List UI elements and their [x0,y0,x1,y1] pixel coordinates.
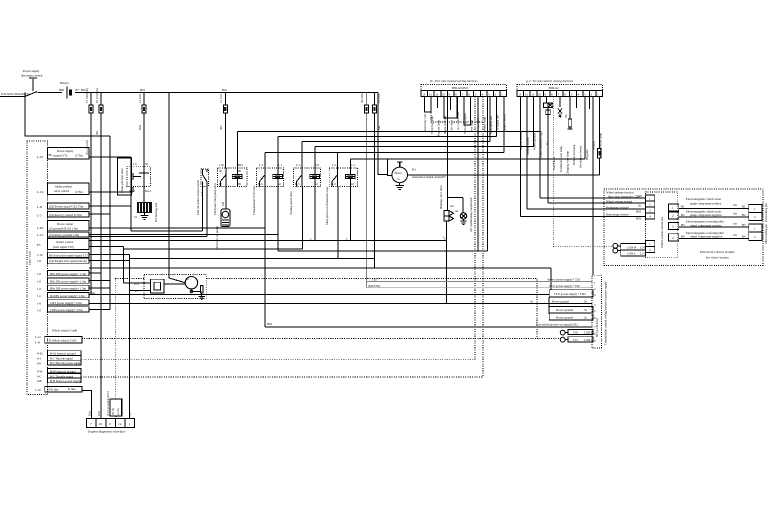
trans row2 tcu power label [368,284,580,288]
wheel CAN twisted pair symbol [553,243,617,253]
X1 pin digits [422,92,503,96]
svg-text:B1: B1 [742,204,746,208]
air conditioning compressor [455,198,473,233]
svg-text:1-0: 1-0 [37,301,41,305]
svg-text:L17: L17 [640,252,645,256]
wire ecu row5 ground to relay K3 [89,227,265,229]
ECU DIS row11 box [37,278,89,284]
X2 pin1 wire to wheel row4 [519,97,521,217]
svg-text:(start signal T50): (start signal T50) [53,245,74,249]
svg-text:30a: 30a [219,125,223,130]
wire ecu row9 [89,259,130,261]
svg-text:disconnect switch: disconnect switch [21,74,43,78]
svg-text:Power output: Power output [57,222,73,226]
svg-text:Da DIS power supply+ 2.5m: Da DIS power supply+ 2.5m [50,294,85,298]
wire throttle signal dashed long [81,359,475,361]
X1 pin3 wire [437,97,439,109]
svg-text:B0-gnd2: B0-gnd2 [585,149,589,160]
fuse F2 [95,88,103,418]
ECU DIS row10 box [37,270,89,276]
wheel bottom pin boxes [646,240,655,252]
diag K line wire [82,390,92,418]
X2 pin7 lamp symbol [558,97,562,118]
svg-text:Air conditioning compressor: Air conditioning compressor [469,198,473,233]
X1 pin9 wire throttle dashed [474,97,476,360]
fuse F3 preheat [138,93,146,168]
svg-text:13: 13 [518,92,522,96]
svg-text:Whole vehicle CanB: Whole vehicle CanB [52,329,77,333]
svg-text:L-C2: L-C2 [37,190,44,194]
svg-text:a) 5A: a) 5A [116,407,120,415]
svg-text:Transmission TCU relay: Transmission TCU relay [252,185,256,215]
svg-text:a2: a2 [278,182,281,186]
fan locking connector B [749,224,768,244]
svg-text:Wheel system control box: Wheel system control box [660,216,664,248]
svg-text:1-0: 1-0 [37,280,41,284]
holding valve Y1 [439,97,463,304]
svg-text:B0a DIS power supply+ 1.5m: B0a DIS power supply+ 1.5m [50,287,87,291]
ECU DIS row14 box [37,300,89,306]
svg-text:B00: B00 [59,88,65,92]
svg-text:(T15 at switch ACC): (T15 at switch ACC) [106,391,110,416]
svg-text:(5)2 Engine start speed plus s: (5)2 Engine start speed plus sig [49,259,87,263]
wire CAN dashed [82,338,561,340]
svg-text:Engine diagnostic interface: Engine diagnostic interface [87,430,126,434]
transmission connector X3 dashed box [592,275,601,348]
svg-text:2-0: 2-0 [315,163,319,167]
svg-text:1x 15A: 1x 15A [219,93,223,103]
svg-text:B06-G2: B06-G2 [549,86,559,90]
fuse F1 [85,88,93,294]
svg-text:B06-G0 (B2): B06-G0 (B2) [452,86,468,90]
svg-text:L-11: L-11 [35,335,41,339]
svg-text:K line: K line [68,387,76,391]
svg-text:11: 11 [435,92,438,96]
SECTION: strips [238,79,603,377]
svg-text:IC_Eve cab control wiring harn: IC_Eve cab control wiring harness [429,79,478,83]
ECU row8 activation enable box [37,252,89,257]
wire L6 [350,159,585,168]
exhaust brake unit A1 [134,274,206,299]
svg-text:Electrical control module: Electrical control module [699,250,735,254]
trans row3 tcu power box [549,290,593,297]
svg-text:L-K2: L-K2 [37,226,44,230]
svg-text:L-03: L-03 [37,155,43,159]
svg-text:Seat lamp: Seat lamp [469,120,473,132]
X1 pin7 wire [464,97,471,126]
svg-text:Motor: Motor [395,171,403,175]
X2 pin10 wire L6 feed [584,97,586,159]
svg-text:for wheel system: for wheel system [706,256,729,260]
connector strip X1 pin row [421,91,507,97]
trans CAN L box [565,337,593,342]
svg-text:(2) battery grounds 1.5m: (2) battery grounds 1.5m [49,233,79,237]
ECU row23 sensor power box [37,378,81,383]
wheel row1 wire key logic [540,191,645,199]
wire starter relay K4 to brake unit [123,187,302,284]
wire ecu DIS row15 [89,308,110,310]
wheel out wire2 pump negative [679,210,749,218]
svg-text:L-N: L-N [35,341,41,345]
svg-text:Fog out lamp: Fog out lamp [436,119,440,136]
wheel row4 wire defrosting switch [520,213,645,221]
svg-text:Idler locking pin: Idler locking pin [764,224,768,244]
X2 pin5 jumper blocks [544,97,553,115]
X1 pin1 wire [424,97,431,113]
X2 pin8 wire fuse [564,97,573,130]
svg-text:C-a: C-a [259,163,264,167]
SECTION: diag [82,390,135,433]
fan locking connector A [749,203,768,222]
X1 pin10 wire sensor dashed [482,97,484,377]
SECTION: motor valve [388,97,600,304]
svg-text:B0a DIS power supply+ 1.5m: B0a DIS power supply+ 1.5m [50,279,87,283]
svg-text:Holding valve relay: Holding valve relay [439,185,443,209]
svg-text:B-5: B-5 [295,182,300,186]
wire flameout relay K5 to brake unit and diag [130,187,375,419]
svg-text:1: 1 [129,422,131,426]
svg-text:Charging wire lamp: Charging wire lamp [565,151,569,175]
svg-text:B01: B01 [238,163,244,167]
svg-text:0-1: 0-1 [37,357,41,361]
ECU DIS row12 box [37,285,89,291]
svg-text:0-0: 0-0 [37,361,41,365]
svg-text:Power supply: Power supply [57,149,74,153]
trans row5 power ground box [549,307,593,313]
X1 pin labels [423,112,506,136]
svg-text:M1: M1 [221,201,225,206]
electronic oil pump M2 [215,187,230,251]
wire K3 coil to strip1 pin9 area [278,97,488,252]
svg-text:1-C: 1-C [37,294,42,298]
svg-text:B02: B02 [267,322,273,326]
svg-text:B-b: B-b [258,182,263,186]
svg-text:31: 31 [134,215,138,219]
pre-heating unit R-glow [134,186,158,222]
svg-text:B-0: B-0 [331,182,336,186]
svg-text:B03: B03 [636,217,642,221]
starting speed relay K4 [289,163,321,215]
trans ground box links [548,297,550,314]
svg-text:L-5: L-5 [37,213,42,217]
svg-text:30: 30 [145,162,149,166]
wire power ground heavy [89,302,592,304]
svg-text:B2 (4-CB-D32): B2 (4-CB-D32) [595,318,599,337]
wire ecu row3 [89,205,131,207]
svg-text:13: 13 [422,92,426,96]
wheel left pin boxes [646,195,655,219]
X2 pin3 wire L4 feed [533,97,535,147]
svg-text:output (VT): output (VT) [53,154,67,158]
ECU row18 sensor ground box [37,351,81,356]
X2 pin4 wire L1 and wheel row1 [539,97,541,198]
svg-text:0.75m: 0.75m [75,190,83,194]
svg-text:30: 30 [219,169,223,173]
svg-text:E3: E3 [37,243,41,247]
svg-text:K2a: K2a [88,410,92,416]
wire strip1 pin feed down to 251 line [487,97,489,252]
svg-text:C22: C22 [637,194,643,198]
svg-text:(2)2 heat rly control 0.75m: (2)2 heat rly control 0.75m [49,213,82,217]
svg-text:relay control: relay control [54,189,69,193]
trans CAN H box [565,329,594,334]
svg-text:L18: L18 [640,245,645,249]
svg-text:Cab valve: Cab valve [450,119,454,132]
wire L1 [238,131,541,168]
svg-text:Electronic oil pump: Electronic oil pump [215,226,219,250]
svg-text:KG2: KG2 [129,189,135,193]
svg-text:12: 12 [525,92,529,96]
SECTION: transmission connector [368,268,608,348]
svg-text:1m: 1m [733,203,738,207]
wire ecu row6 ground to relay K3 coil [89,187,278,252]
wire battery negative loop [25,93,110,310]
svg-text:85: 85 [238,182,242,186]
ECU row20 throttle power box [37,360,82,365]
X2 pin5 wire to wheel row2 [547,108,549,204]
X1 pin13 wire L5 feed [503,97,505,153]
svg-text:Lamp-1 switch: Lamp-1 switch [502,113,506,132]
svg-text:CAN L: CAN L [627,252,636,256]
diag fuse box [110,399,122,419]
svg-text:0-C: 0-C [37,375,42,379]
svg-text:1-1: 1-1 [278,163,282,167]
svg-text:Power ground: Power ground [556,308,573,312]
trans row6 power ground box [549,314,593,320]
wire L4 [315,146,534,167]
wire brake unit feed [168,93,170,275]
svg-text:1m: 1m [733,212,738,216]
svg-text:0.75m: 0.75m [75,154,83,158]
wire ecu DIS row13 Da to TCU supply [89,294,549,296]
wheel row3 wire preheating switch [527,205,646,213]
svg-text:Electronic fuel pump relay: Electronic fuel pump relay [213,182,217,215]
svg-text:CAN H: CAN H [627,245,637,249]
svg-text:Starter control: Starter control [56,240,73,244]
diag pin labels [88,391,132,416]
fuse F6 [373,93,382,268]
svg-text:Key switch (power-on signal) C: Key switch (power-on signal) CR2 [536,323,578,327]
battery B [59,81,87,99]
svg-text:pump component positive: pump component positive [690,202,722,206]
svg-text:KG3: KG3 [145,189,151,193]
wire bus end corner to motor [378,93,387,175]
svg-text:Fuel oil outlet coolant switch: Fuel oil outlet coolant switch [196,180,200,215]
svg-text:E9 K line: E9 K line [47,388,59,392]
trans CAN twisted pair symbol [560,330,565,342]
svg-text:C-a: C-a [296,163,301,167]
engine diagnostic interface connector [87,419,135,434]
X1 pin5 wire holding valve feed [450,97,452,111]
svg-text:Wheel ground: Wheel ground [532,132,536,150]
main power-on flameout relay K5 [325,163,358,225]
X2 pin13 wire to fuse F7 [598,97,600,175]
connector strip X2 pin row [517,91,603,97]
svg-text:A-c switch out: A-c switch out [456,112,460,130]
svg-text:0-B: 0-B [37,379,42,383]
wheel out wire4 idler negative [679,231,749,239]
svg-text:B0-gnd: B0-gnd [592,141,596,151]
svg-text:A2: A2 [450,204,454,208]
svg-text:1-B: 1-B [219,163,224,167]
svg-text:B-W Sensor2 ground: B-W Sensor2 ground [50,369,76,373]
ECU row7 starter control box [37,239,89,250]
ECU row3 power output box [37,203,89,209]
trans feed drop from main power line [550,268,552,290]
svg-text:CAN L: CAN L [584,338,593,342]
svg-text:B0: B0 [49,153,53,157]
fuse F7 [598,149,602,158]
svg-text:B-a: B-a [546,140,550,145]
X2 pin digits [518,92,599,96]
svg-text:a2: a2 [351,182,354,186]
fuel oil outlet coolant switch S2 [196,169,209,215]
wire key switch power-on signal [265,187,592,328]
svg-text:Main power-on (flameout) relay: Main power-on (flameout) relay [325,186,329,225]
svg-text:1m: 1m [733,233,738,237]
ECU DIS row13 box Da [37,291,96,298]
wire ecu row1 to fuel-oil switch loop [89,157,203,231]
svg-text:T18: T18 [573,331,578,335]
svg-text:B01: B01 [222,88,228,92]
svg-text:Wheel electricity logic: Wheel electricity logic [539,130,543,158]
wire ecu DIS row11 [89,280,110,282]
svg-text:Power ground: Power ground [552,299,569,303]
wire CAN branch dashed vertical [115,278,537,338]
svg-text:(key logic electricity C22): (key logic electricity C22) [608,194,640,198]
svg-text:Preheating switch+: Preheating switch+ [606,205,629,209]
ECU row24 K line box [35,386,82,392]
SECTION: relays middle [118,158,358,300]
trans row1 sensor power label [372,278,580,282]
connector strip X1 outer box [421,85,507,91]
wire L2 [278,136,497,168]
svg-text:1-0: 1-0 [37,287,41,291]
svg-text:86: 86 [238,169,242,173]
svg-text:Intake preheat: Intake preheat [55,185,72,189]
wire ecu row8 [89,254,130,256]
svg-text:1m: 1m [733,222,738,226]
svg-text:Revolution Sensor: Revolution Sensor [579,146,583,168]
svg-text:B-B Sensor power supply: B-B Sensor power supply [50,379,81,383]
svg-text:TCU power supply * T5D: TCU power supply * T5D [554,292,586,296]
svg-text:0-W: 0-W [37,370,42,374]
X2 pin11 stub [588,97,590,110]
wire CAN to diag dashed [114,278,116,399]
intake preheat relay K1 label box [118,158,132,195]
power supply disconnect switch S1 [21,69,43,97]
wire L5 [265,152,504,168]
svg-text:B3: B3 [742,223,746,227]
X2 pin2 wire to wheel row3 [526,97,528,210]
svg-text:Power ground: Power ground [556,316,573,320]
fuse F4 [219,93,227,168]
svg-text:B4: B4 [742,234,746,238]
svg-text:M: M [186,277,189,281]
svg-text:CN Whole vehicle CAN: CN Whole vehicle CAN [47,338,77,342]
svg-text:B-1 Throttle signal: B-1 Throttle signal [50,356,73,360]
svg-text:14: 14 [118,422,122,426]
svg-text:Electromagnetic clutch water: Electromagnetic clutch water [686,197,721,201]
svg-text:1-0: 1-0 [37,259,41,263]
svg-text:B01: B01 [140,88,146,92]
svg-text:7: 7 [90,422,92,426]
wire ecu DIS row10 [89,272,101,274]
svg-text:B4: B4 [681,234,685,238]
SECTION: ecu left [27,141,96,395]
connector strip X2 outer box [517,85,603,91]
svg-text:1-0: 1-0 [37,272,41,276]
wire trans tcu power thin [367,287,592,289]
svg-text:B0a DIS power supply+ 1.5m: B0a DIS power supply+ 1.5m [50,272,87,276]
wire trans sensor power thin [367,281,592,283]
wire ecu row2 to preheat coil [89,186,133,192]
svg-text:L-C2: L-C2 [37,233,44,237]
wire ecu row4 [89,213,110,215]
wire fuel-oil switch pin2 [89,187,207,237]
svg-text:Power supply: Power supply [23,69,40,73]
svg-text:30a: 30a [95,130,99,135]
svg-text:Wheel system ground: Wheel system ground [606,199,633,203]
svg-text:Preheat out lamp: Preheat out lamp [572,144,576,165]
ECU CAN box row17 [35,335,82,345]
svg-text:A1: A1 [455,209,459,213]
svg-text:30 (2): 30 (2) [111,408,115,415]
svg-text:Defrost switch: Defrost switch [519,132,523,150]
svg-text:9: 9 [109,422,111,426]
svg-text:K62: K62 [138,124,142,130]
svg-text:B3: B3 [681,223,685,227]
X1 pin2 dashed jumper [431,97,483,123]
wheel row2 wire ground [548,199,646,207]
svg-text:10: 10 [442,92,446,96]
wheel CAN H box [618,244,646,250]
SECTION: wheel module [520,189,768,265]
svg-text:Transmission control wiring ha: Transmission control wiring harness to p… [604,281,608,345]
svg-text:B2: B2 [742,213,746,217]
svg-text:B1: B1 [681,204,685,208]
svg-text:1-0: 1-0 [37,308,41,312]
svg-text:1-10: 1-10 [37,253,43,257]
X2 pin6 wire CAN dashed to wheel [552,97,554,247]
svg-text:T15: T15 [573,338,578,342]
wire ecu row7 starter control [89,246,123,249]
fuse F5 [360,93,369,288]
X1 pin4 wire jumper [444,97,457,119]
svg-text:B02: B02 [636,209,642,213]
svg-text:B+: B+ [76,88,80,92]
wheel system module outer dashed box [604,189,763,265]
SECTION: long lines [81,97,592,419]
wire main battery bus B01 [38,92,378,94]
svg-text:g_C To cab control wiring harn: g_C To cab control wiring harness [526,79,574,83]
SECTION: power top [0,69,381,419]
wire sensor power dashed long [81,376,483,378]
svg-text:B-42 Sensor1 ground: B-42 Sensor1 ground [50,352,76,356]
svg-text:12: 12 [429,92,433,96]
svg-text:EDC7 ECU: EDC7 ECU [28,250,32,265]
svg-text:Fan locking pin: Fan locking pin [764,203,768,222]
wire main power y267.8 [89,267,551,269]
svg-text:B2: B2 [681,213,685,217]
wire ecu DIS row12 [89,287,110,289]
svg-text:10: 10 [538,92,542,96]
svg-text:C-a: C-a [332,163,337,167]
X2 pin9 wire [575,97,577,109]
svg-text:1-19: 1-19 [35,388,41,392]
wheel CAN L box [618,250,646,256]
svg-text:Water-pressure-lamp: Water-pressure-lamp [598,132,602,158]
